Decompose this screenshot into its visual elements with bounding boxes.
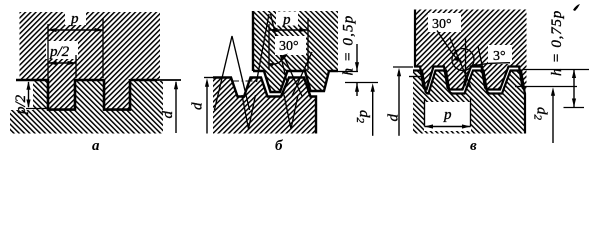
d dimension left [204,77,214,79]
nut profile thick [253,11,338,92]
svg-text:d: d [190,102,206,110]
nut bottom profile thick [415,10,526,90]
h dimension far right [523,69,589,71]
d2 dimension [372,87,374,136]
d2 dimension right [515,86,577,88]
svg-text:h = 0,75p: h = 0,75p [549,10,565,76]
white boxes for labels [65,11,86,25]
svg-text:б: б [275,138,283,154]
svg-text:p: p [282,12,291,28]
angle annotation: circle + lines [452,49,474,71]
svg-text:p: p [70,11,79,27]
screw profile thick [413,71,525,134]
svg-text:в: в [470,138,477,154]
nut block hatched [20,12,161,110]
svg-text:а: а [92,138,100,154]
dash-dot pitch line [232,80,259,82]
d extension [157,79,181,81]
svg-text:p/2: p/2 [49,44,70,60]
nut block hatched [415,10,527,90]
svg-text:3°: 3° [493,49,506,64]
screw block hatched [10,81,163,134]
profile thick lines [16,79,157,111]
screw block hatched [413,71,525,134]
p/2 horizontal dimension [75,55,77,78]
svg-text:h = 0,5p: h = 0,5p [341,15,357,76]
screw profile thick [213,78,316,134]
svg-text:30°: 30° [279,39,299,54]
svg-text:p: p [443,107,452,123]
svg-text:d: d [386,114,402,122]
screw block hatched [213,78,316,134]
p dimension (bottom) [424,98,426,127]
h dimension right [338,71,358,73]
thin theoretical apex lines over nut [257,14,288,82]
white box for 30 deg label [275,36,306,55]
thin V extensions below roots [242,95,256,129]
svg-text:d: d [160,111,176,119]
p dimension [268,24,270,70]
white box for p label [276,12,298,26]
thin theoretical triangle left [214,36,249,110]
svg-text:p/2: p/2 [13,94,29,115]
p/2 vertical dimension (left) [26,108,48,110]
nut block hatched [253,11,338,92]
white boxes [428,13,461,32]
svg-text:30°: 30° [432,17,452,32]
thin X extension at ridge 3 [284,52,312,96]
d dimension left [393,66,413,68]
comma mark [573,4,580,11]
p dimension [47,24,49,78]
d arrow [175,82,177,133]
